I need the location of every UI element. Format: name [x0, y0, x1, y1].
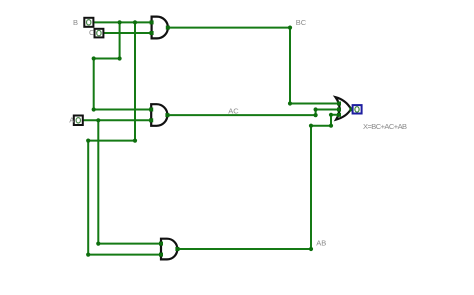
terminal nub G2 input 1 — [149, 108, 153, 112]
junction on B wire at x=119.6 — [118, 20, 122, 24]
junction corner V1 at (119.6,58.5) — [118, 56, 122, 60]
and-gate U1 (BC) — [152, 17, 168, 39]
junction corner AB at (331,114.8) — [329, 113, 333, 117]
junction corner AB at (311,249) — [309, 247, 313, 251]
input pin C — [95, 29, 104, 38]
terminal nub G1 input 1 — [150, 20, 154, 24]
and-gate U3 (AB) — [161, 239, 177, 260]
terminal nub G1 input 2 — [150, 31, 154, 35]
terminal nub G3 input 2 — [159, 253, 163, 257]
wire AC: G2 output right, up, into OR gate middle input — [167, 110, 339, 116]
junction corner AC at (315.6,109.5) — [314, 107, 318, 111]
svg-text:AB: AB — [316, 239, 326, 248]
terminal nub G2 output — [165, 113, 169, 117]
wire branch V1: from B wire down, left, down, to AND G2 top input — [94, 22, 152, 109]
wire branch from A wire down to AND G3 top input — [98, 120, 161, 243]
terminal nub G3 input 1 — [159, 242, 163, 246]
junction on B wire at x=135 — [133, 20, 137, 24]
svg-text:B: B — [73, 18, 78, 27]
input pin A — [74, 116, 83, 126]
input pin B — [84, 18, 93, 27]
svg-text:BC: BC — [296, 18, 307, 27]
junction corner V1 at (93.7,109.5) — [92, 107, 96, 111]
svg-text:C: C — [89, 28, 95, 37]
junction corner V2 at (135,140.6) — [133, 139, 137, 143]
junction corner A branch at (98.3,243.6) — [96, 242, 100, 246]
terminal nub G3 output — [175, 247, 179, 251]
and-gate U2 (AC) — [151, 104, 167, 126]
svg-text:X=BC+AC+AB: X=BC+AC+AB — [363, 122, 407, 131]
junction corner BC top — [288, 26, 292, 30]
junction on A wire at x=98.3 — [96, 118, 100, 122]
output pin X — [353, 105, 362, 113]
wire C pin to AND G1 bottom input — [104, 32, 151, 34]
or-gate U4 (X) — [336, 97, 352, 119]
wire BC: G1 output right, down, into OR gate top input — [168, 28, 339, 104]
svg-text:A: A — [69, 115, 74, 124]
junction corner AB at (331,125.7) — [329, 124, 333, 128]
junction corner AC at (315.6,115.1) — [314, 113, 318, 117]
terminal nub OR input 2 — [337, 108, 341, 112]
svg-text:AC: AC — [228, 106, 239, 115]
terminal nub G2 input 2 — [149, 118, 153, 122]
junction corner AB at (311,125.7) — [309, 124, 313, 128]
terminal nub G1 output — [166, 26, 170, 30]
wire A pin to AND G2 bottom input — [84, 119, 151, 121]
terminal nub OR output — [349, 107, 353, 111]
wire B pin to AND G1 top input — [94, 21, 151, 23]
junction corner V2 at (88.2,254.6) — [86, 253, 90, 257]
wire AB: G3 output right, up, jog, into OR gate bottom input — [177, 115, 339, 249]
wire branch V2: from B wire down, left, down, to AND G3 bottom input — [88, 22, 161, 254]
junction corner BC bottom — [288, 101, 292, 105]
junction corner V2 at (88.2,140.6) — [86, 139, 90, 143]
terminal nub OR input 3 — [337, 113, 341, 117]
junction corner V1 at (93.7,58.5) — [92, 56, 96, 60]
terminal nub OR input 1 — [337, 102, 341, 106]
